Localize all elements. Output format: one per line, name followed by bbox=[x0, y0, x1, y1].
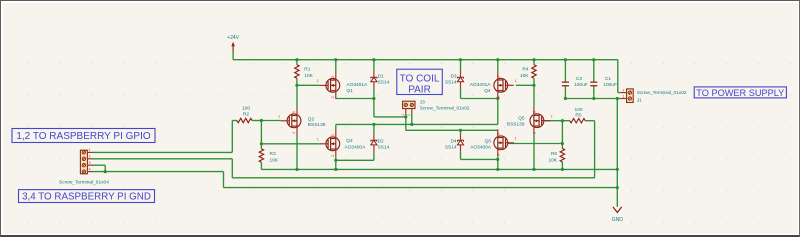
svg-text:BSS138: BSS138 bbox=[507, 121, 525, 127]
svg-text:3: 3 bbox=[89, 161, 91, 165]
svg-text:SS14: SS14 bbox=[445, 79, 457, 85]
svg-text:GND: GND bbox=[612, 217, 624, 223]
svg-text:R4: R4 bbox=[522, 67, 528, 73]
svg-text:C2: C2 bbox=[576, 76, 582, 82]
svg-text:AO3401A: AO3401A bbox=[470, 82, 492, 88]
svg-text:2: 2 bbox=[89, 155, 91, 159]
svg-text:Screw_Terminal_01x02: Screw_Terminal_01x02 bbox=[637, 90, 687, 96]
svg-text:2: 2 bbox=[331, 76, 335, 78]
svg-text:1: 1 bbox=[623, 94, 625, 98]
svg-text:Q1: Q1 bbox=[346, 88, 353, 94]
svg-text:1: 1 bbox=[317, 79, 319, 83]
svg-text:3,4 TO RASPBERRY PI GND: 3,4 TO RASPBERRY PI GND bbox=[22, 192, 151, 203]
svg-text:BSS138: BSS138 bbox=[308, 122, 326, 128]
svg-text:1: 1 bbox=[278, 115, 280, 119]
svg-text:2: 2 bbox=[407, 114, 411, 116]
svg-text:PAIR: PAIR bbox=[408, 85, 431, 96]
svg-text:TO POWER SUPPLY: TO POWER SUPPLY bbox=[696, 88, 784, 98]
svg-text:R5: R5 bbox=[575, 113, 581, 119]
svg-text:3: 3 bbox=[331, 134, 335, 136]
svg-text:4: 4 bbox=[89, 167, 91, 171]
svg-text:1: 1 bbox=[89, 148, 91, 152]
svg-text:3: 3 bbox=[497, 96, 501, 98]
svg-text:1: 1 bbox=[515, 79, 517, 83]
svg-text:2: 2 bbox=[497, 76, 501, 78]
svg-text:D2: D2 bbox=[378, 139, 384, 145]
svg-text:1: 1 bbox=[551, 115, 553, 119]
svg-text:D4: D4 bbox=[450, 139, 456, 145]
svg-text:10K: 10K bbox=[270, 157, 279, 163]
svg-text:SS14: SS14 bbox=[445, 144, 457, 150]
svg-text:J1: J1 bbox=[637, 98, 642, 104]
svg-text:AO3400A: AO3400A bbox=[470, 144, 492, 150]
svg-text:Q3: Q3 bbox=[346, 138, 353, 144]
svg-text:SS14: SS14 bbox=[378, 79, 390, 85]
svg-text:10K: 10K bbox=[304, 73, 313, 79]
svg-text:Q5: Q5 bbox=[518, 116, 525, 122]
svg-text:100uF: 100uF bbox=[574, 82, 588, 88]
svg-text:C1: C1 bbox=[605, 76, 611, 82]
svg-text:Screw_Terminal_01x04: Screw_Terminal_01x04 bbox=[59, 180, 109, 186]
svg-text:R2: R2 bbox=[243, 112, 249, 118]
svg-text:2: 2 bbox=[292, 132, 296, 134]
svg-text:1: 1 bbox=[515, 137, 517, 141]
svg-text:2: 2 bbox=[533, 132, 537, 134]
svg-text:100: 100 bbox=[574, 107, 582, 113]
svg-text:Q4: Q4 bbox=[484, 88, 491, 94]
svg-text:D3: D3 bbox=[450, 74, 456, 80]
svg-text:1,2 TO RASPBERRY PI GPIO: 1,2 TO RASPBERRY PI GPIO bbox=[16, 131, 151, 142]
svg-text:J3: J3 bbox=[420, 100, 425, 106]
svg-text:AO3400A: AO3400A bbox=[345, 144, 367, 150]
svg-text:D1: D1 bbox=[378, 74, 384, 80]
svg-text:1: 1 bbox=[317, 138, 319, 142]
svg-text:R1: R1 bbox=[304, 67, 310, 73]
svg-text:2: 2 bbox=[623, 88, 625, 92]
svg-text:3: 3 bbox=[331, 96, 335, 98]
svg-text:TO COIL: TO COIL bbox=[400, 74, 440, 85]
svg-text:R6: R6 bbox=[551, 151, 557, 157]
svg-text:1: 1 bbox=[401, 114, 405, 116]
svg-text:R3: R3 bbox=[270, 151, 276, 157]
svg-text:Q6: Q6 bbox=[485, 139, 492, 145]
svg-text:3: 3 bbox=[533, 111, 537, 113]
svg-text:2: 2 bbox=[331, 155, 335, 157]
svg-text:100uF: 100uF bbox=[603, 82, 617, 88]
svg-text:Q2: Q2 bbox=[308, 116, 315, 122]
svg-text:SS14: SS14 bbox=[378, 144, 390, 150]
svg-text:+24V: +24V bbox=[227, 35, 239, 41]
svg-text:Screw_Terminal_01x02: Screw_Terminal_01x02 bbox=[420, 105, 470, 111]
svg-text:3: 3 bbox=[497, 133, 501, 135]
svg-text:AO3401A: AO3401A bbox=[346, 82, 368, 88]
svg-text:2: 2 bbox=[497, 154, 501, 156]
svg-text:10K: 10K bbox=[520, 73, 529, 79]
svg-text:3: 3 bbox=[292, 111, 296, 113]
svg-text:10K: 10K bbox=[548, 157, 557, 163]
svg-text:100: 100 bbox=[242, 106, 250, 112]
